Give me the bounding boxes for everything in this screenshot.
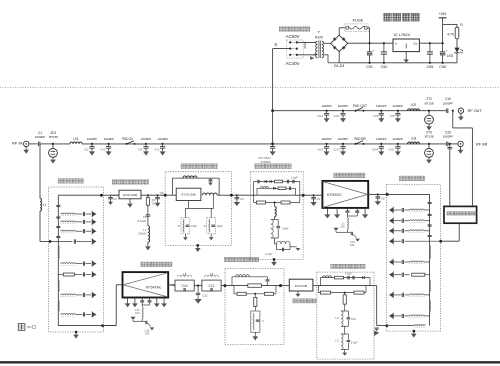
wire reverse out — [374, 286, 387, 326]
label 1000PF — [84, 137, 98, 151]
svg-text:C12: C12 — [208, 284, 214, 288]
wire — [221, 285, 225, 287]
switch PAD OUT — [355, 108, 365, 112]
top path — [321, 278, 371, 286]
label K — [275, 42, 278, 47]
node bottom ground — [73, 331, 79, 339]
wire — [313, 285, 317, 287]
equalizer box 正向手动均衡器 — [165, 172, 231, 246]
label ZD1 — [49, 131, 58, 139]
label 2200PF — [334, 104, 349, 118]
switch PAD IN — [126, 141, 136, 145]
svg-text:PAD OUT: PAD OUT — [353, 104, 367, 108]
wire — [273, 143, 447, 145]
reverse filter row 3 — [61, 228, 97, 235]
title 正向放大模块 — [334, 173, 365, 178]
label FUSE — [353, 17, 364, 22]
forward filter box 正向滤波器 — [386, 185, 440, 332]
svg-text:L.C: L.C — [335, 317, 339, 320]
svg-text:C20: C20 — [351, 318, 356, 321]
capacitor C55 — [427, 42, 433, 64]
svg-text:C08: C08 — [390, 114, 395, 118]
node — [49, 240, 52, 243]
attenuator block 反向衰减器 — [289, 279, 313, 291]
main wire — [225, 285, 284, 287]
filter inner top rail — [58, 195, 101, 325]
svg-text:LED: LED — [447, 54, 454, 58]
svg-text:C52: C52 — [381, 65, 388, 69]
bypass path — [172, 176, 219, 195]
filter inner top rail — [387, 194, 429, 325]
node — [147, 194, 149, 196]
capacitor C08 — [395, 110, 401, 123]
capacitor C07 at junction — [270, 144, 276, 156]
reverse equalizer box 反向固定均衡器 — [225, 269, 284, 345]
node power/RF junction — [271, 143, 274, 146]
svg-text:1-6pF: 1-6pF — [351, 341, 358, 344]
svg-text:ETC8-10dB: ETC8-10dB — [123, 193, 137, 197]
lower path — [319, 286, 367, 295]
label L02 — [411, 103, 417, 107]
svg-text:Out: Out — [413, 42, 417, 46]
svg-text:C5: C5 — [381, 196, 385, 200]
LC network L4 C14 — [168, 273, 194, 292]
label C55 — [427, 65, 434, 69]
capacitor C8 shunt — [155, 194, 161, 207]
capacitor C41 shunt — [310, 194, 316, 206]
reverse filter row 2 — [61, 219, 97, 226]
node — [279, 284, 282, 287]
capacitor C05 — [143, 143, 149, 156]
label 2200PF — [154, 137, 168, 151]
label 2200PF — [100, 137, 114, 151]
capacitor C011 — [340, 110, 346, 123]
capacitor C02 — [89, 143, 95, 156]
forward filter row 5 — [389, 271, 430, 278]
svg-text:C054: C054 — [372, 147, 379, 151]
label RF IN — [12, 141, 23, 146]
svg-text:RF BR: RF BR — [476, 142, 488, 146]
+24V supply — [439, 12, 448, 43]
title 反向滤波器 — [58, 179, 83, 184]
node bottom ground — [411, 330, 417, 338]
svg-text:C3: C3 — [240, 197, 244, 201]
svg-text:2200PF: 2200PF — [104, 137, 115, 141]
label PAD IN — [122, 137, 133, 141]
title 正向手动衰减器 — [112, 180, 149, 185]
inductor L1 100nH — [148, 226, 150, 243]
capacitor C014 — [324, 143, 330, 156]
node — [254, 293, 256, 295]
resistor R 4.7K — [455, 23, 463, 39]
svg-text:L3: L3 — [210, 273, 214, 277]
label 1000PF — [138, 137, 152, 151]
label 1000PF — [372, 137, 387, 151]
capacitor C013 — [340, 143, 346, 156]
wire LED to rail — [456, 53, 458, 63]
svg-text:2200PF: 2200PF — [260, 160, 271, 164]
label C31 — [240, 197, 244, 201]
wire — [108, 194, 119, 196]
power section title 电源部分 — [384, 13, 420, 21]
connector RF OUT — [458, 108, 464, 121]
svg-text:RF OUT: RF OUT — [468, 109, 483, 113]
bus inductor — [58, 280, 59, 291]
svg-text:ETC8-10dB: ETC8-10dB — [181, 193, 195, 197]
LC tank 2 — [335, 326, 358, 349]
svg-text:+24V: +24V — [439, 12, 448, 16]
svg-text:C012: C012 — [317, 114, 324, 118]
label 4.7K — [447, 33, 455, 37]
wire — [217, 194, 231, 196]
switch PAD BR — [355, 141, 365, 145]
svg-text:AC60V: AC60V — [286, 34, 300, 39]
svg-text:C014: C014 — [317, 147, 324, 151]
svg-text:C55: C55 — [427, 65, 434, 69]
forward filter row 2 — [389, 217, 430, 224]
filter bottom row — [385, 324, 425, 327]
switch K dashed box — [287, 40, 303, 58]
top DC rail — [348, 42, 443, 44]
RC network R6 — [204, 216, 223, 240]
amp grounds — [324, 208, 368, 219]
svg-text:103: 103 — [145, 332, 150, 336]
label 1-6pF — [345, 272, 352, 276]
node — [274, 202, 276, 204]
label L1 — [43, 203, 47, 207]
reverse-branch vertical wire — [39, 144, 41, 199]
svg-text:BT158: BT158 — [425, 101, 434, 105]
amp decoupling network — [333, 208, 360, 247]
label 1-6pF — [282, 227, 289, 231]
label AC40V — [286, 61, 300, 66]
svg-text:+: + — [446, 48, 448, 52]
svg-text:C02: C02 — [84, 147, 89, 151]
surge arrester ZT2 — [425, 110, 434, 131]
wire amp out — [168, 285, 175, 286]
node — [230, 194, 233, 197]
bottom border line — [0, 361, 500, 363]
path1 components — [258, 180, 294, 184]
svg-text:C14: C14 — [182, 284, 188, 288]
label 1000PF — [373, 104, 387, 118]
svg-text:L1: L1 — [43, 203, 47, 207]
label IC L7824 — [394, 32, 411, 37]
regulator IC L7824 — [393, 39, 419, 52]
parallel RC — [251, 307, 264, 333]
label 2200PF — [390, 104, 404, 118]
svg-text:2200PF: 2200PF — [158, 137, 169, 141]
svg-text:D1-D4: D1-D4 — [334, 64, 344, 68]
svg-text:C8: C8 — [160, 191, 164, 195]
label C1 — [35, 131, 46, 139]
svg-text:1000PF: 1000PF — [35, 135, 46, 139]
legend icon — [18, 324, 35, 331]
title 反向放大模块 — [141, 262, 172, 267]
label RF BR — [476, 142, 488, 146]
filter bottom wire — [58, 325, 116, 327]
wire — [284, 285, 289, 287]
svg-text:C09: C09 — [373, 114, 378, 118]
surge arrester ZD1 — [49, 143, 58, 164]
svg-text:2200PF: 2200PF — [338, 137, 349, 141]
capacitor C22 — [194, 286, 201, 304]
svg-text:1-6pF: 1-6pF — [291, 175, 298, 179]
bus inductor — [430, 246, 431, 259]
label C22 — [202, 293, 208, 297]
forward filter row 6 — [389, 292, 430, 299]
predistortion box 正向预畸校正器 — [251, 172, 304, 260]
center inductor — [275, 203, 277, 217]
label 1000PF — [317, 104, 332, 118]
capacitor C1 — [39, 142, 40, 147]
amp decoupling network — [130, 298, 154, 336]
svg-text:1-6pF: 1-6pF — [265, 252, 272, 256]
svg-text:BT158: BT158 — [49, 135, 58, 139]
op-amp U2 KF54TAC — [123, 272, 169, 297]
transformer ground — [308, 54, 316, 62]
svg-text:75: 75 — [152, 202, 156, 206]
forward filter row 3 — [389, 228, 430, 235]
ground — [342, 350, 347, 356]
equalizer block — [176, 188, 201, 200]
forward filter row to tap — [389, 238, 441, 245]
svg-text:103: 103 — [135, 311, 140, 315]
power switch contacts — [289, 41, 298, 56]
svg-text:ETC8-6dB: ETC8-6dB — [295, 284, 307, 288]
node eq bottom ground — [195, 244, 201, 252]
node upper branch — [271, 109, 274, 112]
title 正向手动均衡器 — [181, 164, 218, 169]
wire — [29, 143, 38, 145]
bridge rectifier D1-D4 — [331, 35, 348, 51]
lower path — [234, 286, 276, 296]
svg-text:C013: C013 — [333, 147, 340, 151]
node branch — [452, 110, 454, 112]
label 反向衰减器 — [293, 299, 316, 303]
svg-text:RF IN: RF IN — [12, 141, 23, 146]
eq lower wires — [185, 195, 213, 216]
bus inductor — [430, 280, 431, 291]
node — [101, 324, 104, 327]
svg-text:C06: C06 — [154, 147, 159, 151]
forward filter row 7 — [389, 313, 430, 320]
svg-text:5-10pF: 5-10pF — [138, 219, 147, 223]
node — [197, 285, 199, 287]
node — [439, 240, 442, 243]
title 反向预畸校正器 — [331, 264, 365, 268]
svg-text:L03: L03 — [411, 136, 417, 140]
wire branch to tap box — [453, 111, 473, 207]
svg-text:PAD BR: PAD BR — [354, 137, 366, 141]
capacitor C51 — [367, 42, 375, 64]
label 1000PF — [317, 137, 332, 151]
inductor — [202, 193, 217, 195]
amp input wire — [103, 285, 123, 326]
svg-text:R: R — [204, 224, 206, 228]
bypass — [232, 275, 270, 286]
capacitor C51 shunt — [375, 193, 381, 205]
main wire — [251, 194, 304, 196]
capacitor C06 — [160, 143, 166, 156]
bus capacitors — [56, 205, 60, 237]
op-amp U1 KF553C — [322, 181, 368, 208]
wire — [40, 211, 50, 242]
dashed separator line — [0, 87, 500, 89]
svg-text:1-6pF: 1-6pF — [282, 227, 289, 231]
svg-text:+: + — [373, 48, 375, 52]
label C41 — [317, 197, 321, 201]
svg-text:1000PF: 1000PF — [87, 137, 98, 141]
label 2200PF — [333, 137, 348, 151]
lower path resistors — [254, 195, 300, 204]
svg-text:C4: C4 — [317, 197, 321, 201]
wire — [41, 143, 53, 145]
ground — [145, 242, 151, 250]
svg-text:R: R — [178, 224, 180, 228]
svg-text:IC L7824: IC L7824 — [394, 32, 411, 37]
svg-text:KF54TAC: KF54TAC — [146, 285, 162, 289]
svg-text:1000PF: 1000PF — [376, 104, 387, 108]
wire switch to down-line — [273, 48, 289, 50]
wire — [53, 143, 70, 145]
reverse filter row 7 — [61, 311, 97, 318]
node — [224, 284, 227, 287]
connector RF IN — [23, 141, 29, 154]
label 1-6pF — [291, 175, 298, 179]
path2 components — [261, 187, 291, 191]
svg-text:PAD IN: PAD IN — [122, 137, 133, 141]
node — [164, 194, 167, 197]
label L01 — [73, 137, 79, 141]
forward filter row 1 — [389, 207, 430, 214]
capacitor C26 — [447, 142, 448, 147]
upper RF OUT wire — [273, 110, 447, 112]
svg-text:C51: C51 — [366, 65, 373, 69]
node amp input — [302, 194, 305, 197]
ground — [253, 332, 259, 340]
svg-text:C03: C03 — [100, 147, 105, 151]
svg-text:4.7K: 4.7K — [447, 33, 455, 37]
LC network L3 C12 — [202, 273, 221, 292]
wire — [102, 194, 109, 196]
label RF OUT — [468, 109, 483, 113]
reverse filter row 4 — [61, 260, 97, 267]
upper path 2 — [257, 188, 296, 195]
node filter out — [100, 194, 103, 197]
svg-text:2200PF: 2200PF — [393, 137, 404, 141]
capacitor C52 — [381, 42, 387, 64]
wire — [231, 194, 250, 196]
label 2200PF — [388, 137, 403, 151]
label 1-6pF — [265, 252, 272, 256]
svg-text:L4: L4 — [183, 273, 187, 277]
node box bottom — [271, 258, 277, 266]
connector RF BR — [448, 141, 463, 154]
inductor L1 — [40, 199, 42, 211]
svg-text:RJ20: RJ20 — [315, 36, 323, 40]
svg-text:1-6pF: 1-6pF — [345, 272, 352, 276]
main wire — [317, 285, 374, 287]
attenuator ground — [127, 199, 133, 208]
transformer T windings — [316, 41, 324, 59]
svg-text:2200PF: 2200PF — [338, 104, 349, 108]
label L03 — [411, 136, 417, 140]
surge arrester ZT3 — [425, 143, 434, 164]
label C1 5-10pF — [138, 215, 147, 223]
label RJ20 — [315, 36, 323, 40]
svg-text:1000PF: 1000PF — [321, 137, 332, 141]
tap box 与楼栋分支口相连 — [444, 206, 477, 223]
label C0 — [113, 197, 117, 201]
svg-text:C05: C05 — [138, 147, 143, 151]
capacitor C16 — [447, 108, 448, 113]
svg-text:1000PF: 1000PF — [321, 104, 332, 108]
attenuator ground — [296, 291, 301, 297]
capacitor C1 5-10pF — [146, 205, 151, 226]
svg-text:1000PF: 1000PF — [443, 135, 454, 139]
label C52 — [381, 65, 388, 69]
capacitor C012 — [324, 110, 330, 123]
label C56 — [439, 65, 446, 69]
wire amp out — [368, 193, 387, 195]
svg-text:103: 103 — [340, 225, 345, 229]
capacitor at reverse out — [372, 328, 379, 337]
capacitor C56 — [440, 42, 448, 64]
svg-text:100nH: 100nH — [138, 231, 146, 235]
svg-text:10pF: 10pF — [191, 224, 197, 228]
label PAD BR — [354, 137, 366, 141]
wire — [303, 194, 322, 196]
resistor vertical — [254, 294, 257, 307]
svg-text:L.C: L.C — [335, 339, 339, 342]
label C16 — [443, 97, 454, 105]
resistor center — [248, 284, 262, 287]
svg-text:AC40V: AC40V — [286, 61, 300, 66]
bus capacitors — [428, 202, 432, 236]
capacitor C0 shunt — [108, 195, 113, 205]
LED — [447, 48, 463, 59]
label C07 2200PF — [258, 156, 271, 164]
title 正向滤波器 — [399, 176, 424, 181]
fuse — [345, 24, 368, 32]
label ZT2 — [425, 97, 434, 105]
svg-text:L01: L01 — [73, 137, 79, 141]
wire switch to transformer top — [297, 42, 316, 48]
label L1 100nH — [138, 228, 147, 236]
forward filter row 4 — [389, 259, 430, 266]
label AC60V — [286, 34, 300, 39]
bus inductor — [430, 301, 431, 312]
svg-text:KF553C: KF553C — [327, 192, 342, 197]
capacitor C31 shunt — [234, 194, 240, 206]
svg-text:1000PF: 1000PF — [376, 137, 387, 141]
bottom LC — [275, 238, 301, 251]
svg-text:C0: C0 — [113, 197, 117, 201]
wire to R branch — [443, 24, 457, 27]
wire — [141, 194, 165, 196]
wire — [82, 143, 146, 145]
bottom DC rail — [339, 52, 457, 63]
capacitor C03 — [106, 143, 112, 156]
reverse filter row dot — [50, 238, 96, 245]
wire transformer bottom to rail — [324, 55, 339, 63]
IC ground — [404, 52, 409, 63]
capacitor C09 — [378, 110, 384, 123]
label D1-D4 — [334, 64, 344, 68]
wire tap box down — [441, 223, 460, 241]
svg-text:L02: L02 — [411, 103, 417, 107]
